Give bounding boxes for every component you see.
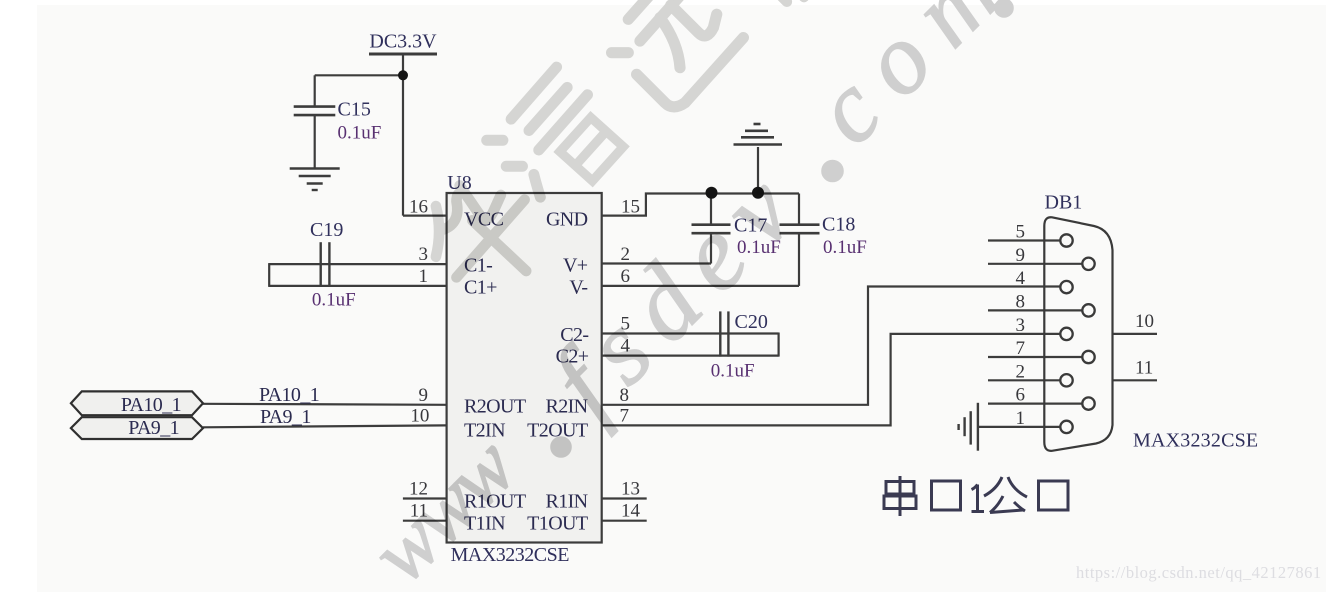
svg-text:3: 3: [1016, 315, 1026, 336]
svg-text:R1IN: R1IN: [545, 491, 587, 513]
svg-text:6: 6: [1016, 385, 1026, 406]
svg-text:0.1uF: 0.1uF: [338, 123, 382, 144]
svg-text:11: 11: [1135, 357, 1153, 378]
svg-text:9: 9: [419, 385, 429, 406]
svg-text:https://blog.csdn.net/qq_42127: https://blog.csdn.net/qq_42127861: [1076, 563, 1322, 582]
svg-text:0.1uF: 0.1uF: [711, 361, 755, 382]
svg-text:PA10_1: PA10_1: [121, 394, 181, 416]
svg-text:13: 13: [621, 479, 640, 500]
svg-text:R2OUT: R2OUT: [464, 396, 526, 418]
svg-text:DB1: DB1: [1045, 192, 1083, 214]
svg-text:C18: C18: [822, 214, 855, 236]
svg-text:7: 7: [1016, 338, 1026, 359]
svg-text:9: 9: [1016, 245, 1026, 266]
svg-text:T1OUT: T1OUT: [527, 513, 588, 535]
svg-text:com: com: [792, 0, 1035, 165]
svg-text:8: 8: [1016, 291, 1026, 312]
svg-text:PA9_1: PA9_1: [128, 417, 179, 439]
svg-text:V-: V-: [569, 277, 587, 299]
svg-text:DC3.3V: DC3.3V: [369, 31, 437, 53]
svg-text:C19: C19: [310, 219, 343, 241]
svg-text:C15: C15: [338, 99, 371, 121]
svg-text:1: 1: [419, 266, 429, 287]
svg-text:MAX3232CSE: MAX3232CSE: [1133, 430, 1258, 452]
svg-text:4: 4: [1016, 268, 1026, 289]
svg-text:V+: V+: [563, 255, 588, 277]
svg-text:16: 16: [409, 197, 428, 218]
svg-text:0.1uF: 0.1uF: [312, 290, 356, 311]
svg-text:15: 15: [621, 197, 640, 218]
svg-text:GND: GND: [546, 209, 588, 231]
svg-text:1: 1: [1016, 408, 1026, 429]
svg-text:2: 2: [1016, 361, 1026, 382]
svg-text:5: 5: [1016, 222, 1026, 243]
svg-text:14: 14: [621, 501, 641, 522]
svg-text:3: 3: [419, 244, 429, 265]
svg-text:C20: C20: [735, 311, 768, 333]
svg-text:10: 10: [410, 405, 429, 426]
svg-text:PA10_1: PA10_1: [259, 384, 319, 406]
svg-text:10: 10: [1135, 311, 1154, 332]
svg-text:C1+: C1+: [464, 277, 497, 299]
svg-text:PA9_1: PA9_1: [260, 406, 311, 428]
svg-text:0.1uF: 0.1uF: [823, 237, 867, 258]
